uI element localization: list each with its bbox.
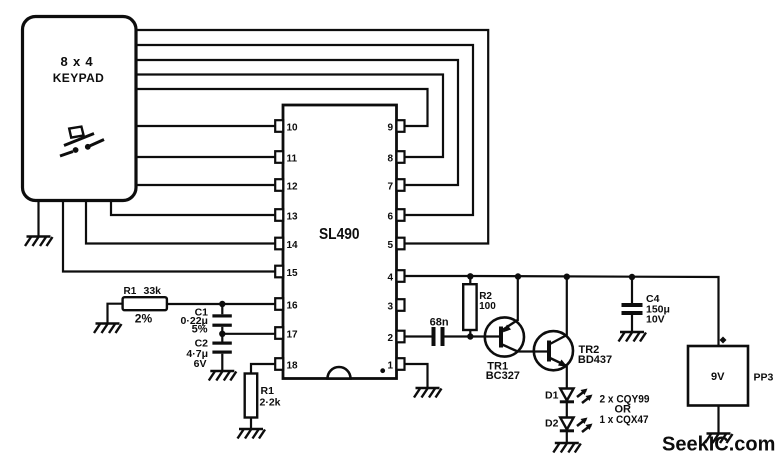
svg-text:10: 10 bbox=[287, 123, 299, 134]
svg-text:15: 15 bbox=[287, 268, 299, 279]
ground under battery bbox=[705, 434, 733, 444]
capacitor C4 150u bbox=[622, 293, 670, 326]
svg-text:2·2k: 2·2k bbox=[260, 397, 281, 409]
LED D1 bbox=[545, 389, 593, 404]
svg-text:8: 8 bbox=[387, 154, 393, 165]
svg-text:SeekIC.com: SeekIC.com bbox=[662, 434, 775, 456]
pin 15 box and number bbox=[275, 266, 298, 279]
svg-text:3: 3 bbox=[387, 302, 393, 313]
wire TR1 collector to TR2 base bbox=[518, 350, 549, 352]
ground under keypad bbox=[25, 237, 53, 247]
wire keypad to pin 8 bbox=[135, 75, 443, 158]
wire TR2 collector to supply rail bbox=[566, 277, 568, 336]
svg-text:7: 7 bbox=[387, 182, 393, 193]
svg-text:BC327: BC327 bbox=[486, 370, 520, 382]
wire pin 2 to 68n capacitor bbox=[405, 335, 432, 337]
pin 5 box and number bbox=[387, 238, 404, 251]
node junction C1 top bbox=[219, 301, 225, 315]
svg-text:9: 9 bbox=[387, 123, 393, 134]
resistor R2 100 bbox=[463, 276, 496, 336]
wire keypad to pin 10 bbox=[135, 125, 275, 127]
pin 10 box and number bbox=[275, 120, 298, 133]
pin 14 box and number bbox=[275, 238, 298, 251]
svg-text:1 x CQX47: 1 x CQX47 bbox=[600, 414, 649, 426]
svg-text:D1: D1 bbox=[545, 390, 559, 402]
svg-text:D2: D2 bbox=[545, 418, 559, 430]
LED type label bbox=[600, 394, 650, 427]
watermark SeekIC.com bbox=[662, 434, 775, 456]
svg-text:SL490: SL490 bbox=[319, 226, 360, 243]
ground under D2 bbox=[553, 443, 581, 453]
resistor R1 33k bbox=[123, 285, 167, 326]
capacitor 68n bbox=[430, 317, 449, 347]
svg-text:5%: 5% bbox=[192, 323, 208, 335]
ground under C2 bbox=[209, 371, 237, 381]
LED D2 bbox=[545, 418, 593, 433]
svg-text:R1: R1 bbox=[124, 286, 137, 297]
svg-text:2: 2 bbox=[387, 333, 393, 344]
capacitor C2 4.7u bbox=[186, 337, 231, 370]
wire pin 18 to R1 2.2k bbox=[251, 364, 275, 374]
capacitor C1 0.22u bbox=[181, 306, 232, 335]
wire keypad to pin 6 bbox=[135, 45, 473, 215]
pin 7 box and number bbox=[387, 179, 404, 192]
battery 9V PP3 bbox=[688, 346, 774, 406]
pin 3 box and number bbox=[387, 299, 404, 312]
ground under R1 33k bbox=[94, 324, 122, 334]
ground under C4 bbox=[619, 332, 647, 342]
wire C4 to ground bbox=[631, 315, 633, 332]
svg-text:R1: R1 bbox=[261, 385, 275, 397]
wire keypad to pin 15 bbox=[63, 199, 275, 272]
wire R1 33k to pin 16 bbox=[167, 303, 275, 305]
transistor TR2 BD437 bbox=[534, 331, 612, 370]
ground at pin 1 bbox=[414, 388, 442, 398]
pin 12 box and number bbox=[275, 179, 298, 192]
supply rail wire pin 4 to battery bbox=[405, 273, 719, 346]
svg-text:18: 18 bbox=[287, 361, 299, 372]
wire keypad to pin 7 bbox=[135, 60, 458, 185]
pin 1 box and number bbox=[387, 358, 404, 371]
battery positive terminal marker bbox=[720, 337, 727, 344]
svg-text:9V: 9V bbox=[711, 371, 725, 383]
wire TR2 emitter to D1 bbox=[566, 366, 568, 388]
svg-text:BD437: BD437 bbox=[578, 354, 612, 366]
svg-text:13: 13 bbox=[287, 212, 299, 223]
wire keypad to ground bbox=[37, 199, 39, 237]
pin 2 box and number bbox=[387, 331, 404, 344]
svg-text:KEYPAD: KEYPAD bbox=[53, 71, 105, 85]
svg-text:8 x 4: 8 x 4 bbox=[61, 54, 94, 69]
resistor R1 2.2k bbox=[245, 374, 281, 418]
pin 11 box and number bbox=[275, 151, 297, 164]
svg-text:10V: 10V bbox=[646, 314, 665, 326]
IC U1 SL490 body bbox=[283, 105, 397, 379]
wire 68n to TR1 base with R2 junction bbox=[445, 333, 502, 339]
wire keypad to pin 12 bbox=[135, 184, 275, 186]
wire keypad to pin 13 bbox=[111, 199, 275, 215]
wire D2 to ground bbox=[566, 431, 568, 443]
svg-text:4: 4 bbox=[387, 273, 393, 284]
svg-text:33k: 33k bbox=[144, 285, 162, 297]
pin 4 box and number bbox=[387, 270, 404, 283]
svg-text:14: 14 bbox=[287, 240, 299, 251]
pin 18 box and number bbox=[275, 358, 298, 371]
svg-text:11: 11 bbox=[287, 154, 298, 165]
transistor TR1 BC327 bbox=[485, 317, 524, 382]
wire keypad to pin 11 bbox=[135, 156, 275, 158]
wire keypad to pin 14 bbox=[86, 199, 275, 244]
pin 17 box and number bbox=[275, 327, 298, 340]
ground under R1 2.2k bbox=[238, 429, 266, 439]
svg-text:PP3: PP3 bbox=[754, 372, 774, 384]
wire R1 2.2k to ground bbox=[250, 418, 252, 430]
svg-text:100: 100 bbox=[479, 301, 496, 312]
wire D1 to D2 bbox=[566, 402, 568, 418]
svg-text:16: 16 bbox=[287, 301, 299, 312]
svg-text:6: 6 bbox=[387, 212, 393, 223]
wire C2 to ground bbox=[221, 354, 223, 371]
svg-text:2%: 2% bbox=[135, 312, 153, 326]
wire R1 33k left lead to ground bbox=[108, 304, 123, 324]
wire TR1 emitter to supply rail bbox=[517, 277, 519, 322]
wire C1 to C2 with junction to pin 17 bbox=[219, 327, 275, 342]
svg-text:17: 17 bbox=[287, 330, 299, 341]
pin 9 box and number bbox=[387, 120, 404, 133]
pin 8 box and number bbox=[387, 151, 404, 164]
pin 6 box and number bbox=[387, 209, 404, 222]
svg-text:1: 1 bbox=[387, 361, 393, 372]
svg-text:12: 12 bbox=[287, 182, 299, 193]
pin 13 box and number bbox=[275, 209, 298, 222]
svg-text:5: 5 bbox=[387, 240, 393, 251]
keypad push-button switch bbox=[60, 127, 104, 156]
wire keypad to pin 9 bbox=[135, 89, 428, 126]
svg-text:68n: 68n bbox=[430, 317, 449, 329]
wire battery to ground bbox=[717, 406, 719, 434]
wire pin 1 to ground bbox=[405, 364, 428, 388]
svg-text:6V: 6V bbox=[194, 358, 207, 370]
keypad box bbox=[23, 17, 137, 201]
wire rail to C4 bbox=[631, 277, 633, 303]
wire keypad to pin 5 (outer loop) bbox=[135, 30, 488, 244]
pin 16 box and number bbox=[275, 298, 298, 311]
